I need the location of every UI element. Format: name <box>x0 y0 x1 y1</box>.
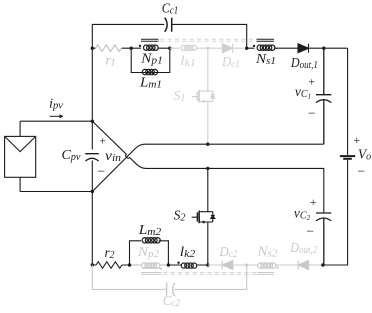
svg-text:+: + <box>309 195 317 209</box>
pv panel <box>5 121 36 191</box>
wire lower mid rail <box>145 168 323 213</box>
node rect2 left <box>128 263 131 266</box>
diode Dout2 (inactive, points left) <box>298 261 308 270</box>
polarity dot Np1 <box>139 45 141 47</box>
node vC2 bottom <box>321 263 324 266</box>
polarity dot lk2 <box>177 262 179 264</box>
diode Dc2 (inactive, points left) <box>222 261 232 270</box>
polarity dot Np2 <box>160 268 162 270</box>
capacitor vC1 <box>316 48 331 144</box>
node input top <box>91 120 94 123</box>
wire right rail bottom <box>323 160 348 265</box>
inductor Np2 (inactive) <box>131 263 168 268</box>
wire lk1 branch (inactive) <box>170 47 245 49</box>
node rect2 right <box>167 263 170 266</box>
polarity dot Ns2 <box>276 266 278 268</box>
capacitor vC2 <box>316 213 331 265</box>
winding Np1 loop rectangle <box>131 48 170 72</box>
mosfet S1 (inactive) <box>192 48 215 144</box>
wire bottom rail left <box>92 264 208 266</box>
resistor r2 <box>96 262 122 269</box>
svg-text:−: − <box>357 164 366 179</box>
svg-text:−: − <box>307 106 316 121</box>
core dashed coupling T2 <box>163 273 256 275</box>
winding Lm2 loop rectangle <box>130 241 169 265</box>
svg-text:−: − <box>305 224 314 239</box>
wire Ns1 to Dout1 <box>247 47 348 49</box>
node S2 drain on lower rail <box>206 167 209 170</box>
wire Cc2 clamp loop (inactive) <box>92 265 246 289</box>
capacitor Cpv <box>85 154 99 161</box>
node S1 tap <box>206 47 209 50</box>
node input bottom <box>91 190 94 193</box>
wire pv bottom <box>20 191 92 193</box>
node Ns1 junction <box>245 47 248 50</box>
svg-text:+: + <box>98 134 106 148</box>
svg-text:+: + <box>308 75 316 89</box>
node vC1 junction <box>322 47 325 50</box>
node S1 source on upper rail <box>206 143 209 146</box>
node r1 rail junction <box>91 47 94 50</box>
inductor Ns2 (inactive) <box>258 263 276 268</box>
battery Vo <box>340 155 355 157</box>
capacitor Cc2 <box>167 282 175 296</box>
inductor lk1 <box>181 45 196 50</box>
capacitor Cc1 <box>165 18 172 32</box>
wire bottom rail inactive segment <box>208 264 321 266</box>
svg-text:−: − <box>96 164 105 179</box>
inductor Lm1 <box>142 69 157 74</box>
wire vC2 bottom junction <box>321 264 324 266</box>
mosfet S2 <box>192 168 215 265</box>
transformer core T2 (inactive) <box>141 273 274 275</box>
resistor r1 <box>96 45 122 52</box>
node rect left <box>130 47 133 50</box>
core dashed coupling T1 <box>160 39 255 41</box>
transformer core T1 <box>141 39 274 41</box>
wire bowtie diagonal from top node <box>92 121 146 168</box>
wire input rail <box>91 121 93 265</box>
diode Dc1 <box>222 44 232 53</box>
node r2 rail junction <box>91 263 94 266</box>
inductor Np1 <box>144 45 159 50</box>
inductor lk2 <box>181 263 196 268</box>
node Cc2 tap <box>245 264 248 267</box>
node rect right <box>168 47 171 50</box>
wire r1 branch lead <box>92 47 131 49</box>
arrow ipv <box>50 115 61 117</box>
polarity dot Ns1 <box>253 45 255 47</box>
svg-text:+: + <box>353 133 361 147</box>
node S2 source on bottom rail <box>206 263 209 266</box>
wire bowtie diagonal from bottom node with hop <box>92 144 144 191</box>
wire right rail top <box>347 48 349 155</box>
wire pv top <box>20 120 92 122</box>
wire top rail with Cc1 <box>92 24 246 121</box>
diode Dout1 <box>298 44 309 53</box>
inductor Ns1 <box>257 45 275 50</box>
inductor Lm2 <box>142 238 160 243</box>
wire upper mid rail <box>144 143 324 145</box>
